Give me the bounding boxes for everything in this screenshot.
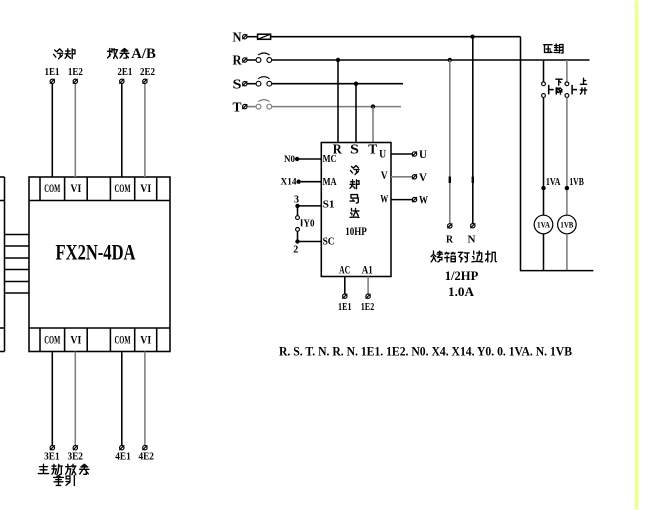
svg-text:VI: VI <box>70 183 81 195</box>
svg-text:N: N <box>233 29 242 44</box>
svg-text:2E2: 2E2 <box>140 67 155 78</box>
svg-text:2E1: 2E1 <box>117 67 132 78</box>
svg-text:W: W <box>380 191 388 205</box>
svg-text:AC: AC <box>339 265 350 277</box>
svg-text:VI: VI <box>70 335 81 347</box>
svg-text:A1: A1 <box>362 265 373 277</box>
svg-text:3E2: 3E2 <box>67 452 83 463</box>
svg-text:1E2: 1E2 <box>68 67 83 78</box>
svg-text:MA: MA <box>323 177 337 188</box>
svg-text:A/B: A/B <box>131 46 156 62</box>
svg-text:1VB: 1VB <box>569 177 584 188</box>
svg-text:V: V <box>381 168 388 182</box>
svg-text:COM: COM <box>115 335 131 347</box>
svg-text:3E1: 3E1 <box>44 452 60 463</box>
svg-text:N0: N0 <box>284 155 295 165</box>
svg-text:1/2HP: 1/2HP <box>445 268 479 283</box>
svg-text:4E2: 4E2 <box>138 452 154 463</box>
svg-text:3: 3 <box>294 195 299 206</box>
svg-text:T: T <box>233 99 242 114</box>
svg-text:1E1: 1E1 <box>338 301 352 313</box>
svg-text:VI: VI <box>140 335 151 347</box>
svg-text:1VA: 1VA <box>546 177 561 188</box>
svg-text:10HP: 10HP <box>345 224 367 238</box>
svg-text:S: S <box>350 141 359 156</box>
svg-text:Y0: Y0 <box>304 219 315 230</box>
svg-text:COM: COM <box>115 183 131 195</box>
svg-text:1VA: 1VA <box>537 220 551 230</box>
svg-text:4E1: 4E1 <box>115 452 131 463</box>
svg-text:1E1: 1E1 <box>45 67 60 78</box>
svg-text:N: N <box>468 234 476 245</box>
svg-text:COM: COM <box>44 335 60 347</box>
svg-text:COM: COM <box>44 183 60 195</box>
svg-text:U: U <box>419 147 427 161</box>
svg-text:S1: S1 <box>323 200 335 211</box>
svg-text:R. S. T. N. R. N. 1E1. 1E2. N0: R. S. T. N. R. N. 1E1. 1E2. N0. X4. X14.… <box>279 343 572 358</box>
svg-text:1.0A: 1.0A <box>448 284 475 299</box>
svg-text:U: U <box>379 147 386 161</box>
svg-text:W: W <box>419 193 428 207</box>
svg-text:R: R <box>233 53 242 68</box>
svg-text:VI: VI <box>140 183 151 195</box>
svg-text:2: 2 <box>293 245 298 256</box>
svg-text:FX2N-4DA: FX2N-4DA <box>56 240 136 265</box>
svg-text:1VB: 1VB <box>560 220 573 230</box>
svg-text:MC: MC <box>323 154 337 165</box>
svg-text:T: T <box>368 141 377 156</box>
svg-text:X14: X14 <box>281 178 297 188</box>
svg-text:S: S <box>233 76 242 91</box>
svg-text:1E2: 1E2 <box>361 301 375 313</box>
svg-text:V: V <box>419 170 427 184</box>
svg-text:SC: SC <box>323 236 335 247</box>
svg-text:R: R <box>446 234 453 245</box>
